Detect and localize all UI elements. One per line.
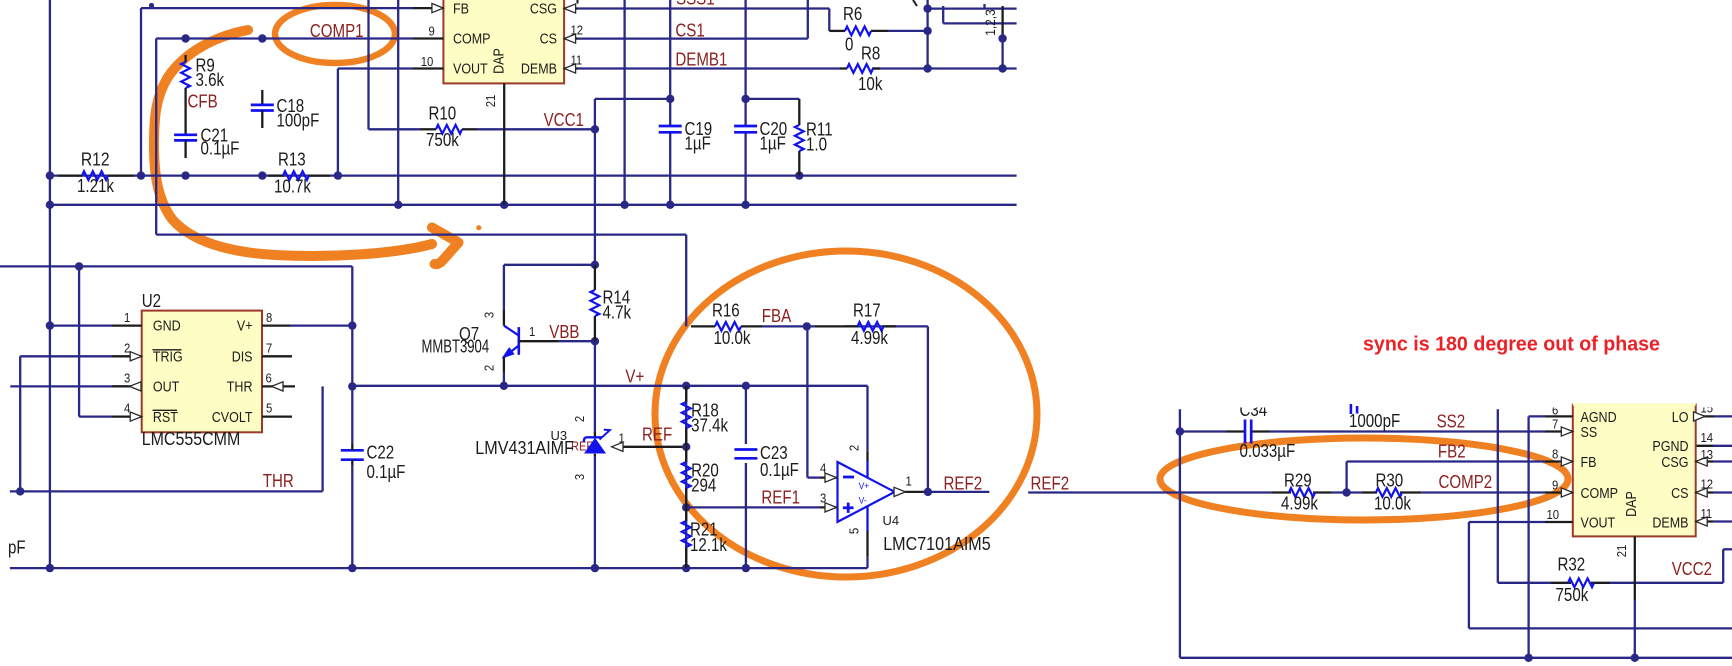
shunt reference U3 LMV431AIMF <box>475 416 625 480</box>
wire REF row y=446.8 from U3 to R18/R20 junction <box>622 446 686 448</box>
svg-text:pF: pF <box>8 537 26 557</box>
transistor Q7 MMBT3904 <box>422 310 559 386</box>
svg-text:13: 13 <box>1701 447 1714 462</box>
junction FB/R12 row A x=141 <box>137 171 145 179</box>
wire FB2 row y=461.5 from R29R30 junction to pin 8 <box>1347 462 1545 493</box>
junction DAP21 row B <box>500 201 508 209</box>
pin arrow U5 DEMB <box>1696 517 1708 526</box>
svg-text:294: 294 <box>691 476 716 496</box>
svg-text:5: 5 <box>847 528 862 534</box>
junction stub dot top left <box>149 3 154 8</box>
resistor R32 750k <box>1551 555 1610 606</box>
junction op-amp output <box>924 488 932 496</box>
svg-text:750k: 750k <box>1556 585 1590 605</box>
svg-text:10.7k: 10.7k <box>274 176 312 196</box>
pin numbers U5 <box>1547 400 1714 522</box>
junction rail left <box>46 564 54 572</box>
cut net label SSS1 at top <box>676 0 715 9</box>
wire VCC1 vertical x=595 from y=99 to R14 top y=265 <box>594 99 596 265</box>
wire corner x=943 y=23 to x=1016 <box>943 6 1016 23</box>
wire rail y=99 C20 to R11 <box>746 98 800 100</box>
pin numbers U1 <box>421 22 583 69</box>
net label REF2 b <box>1031 474 1070 494</box>
svg-text:LMC555CMM: LMC555CMM <box>142 429 241 449</box>
svg-text:R6: R6 <box>843 4 862 24</box>
junction row B left <box>46 201 54 209</box>
cut label fragment near x=915 <box>913 0 917 6</box>
svg-text:750k: 750k <box>426 130 460 150</box>
IC U5 right controller box cut at top <box>1573 405 1696 537</box>
svg-text:SS2: SS2 <box>1437 412 1466 432</box>
svg-text:1µF: 1µF <box>685 134 711 154</box>
resistor R6 0 <box>829 4 888 55</box>
resistor R13 10.7k <box>268 150 330 197</box>
svg-text:3: 3 <box>572 474 587 480</box>
wire Q7 collector link y=264.8 <box>504 265 595 310</box>
junction TRIG THR loop <box>16 487 24 495</box>
svg-text:10: 10 <box>1547 507 1560 522</box>
junction C22 top <box>348 382 356 390</box>
junction C18 top <box>258 34 266 42</box>
capacitor C18 100pF <box>251 90 319 131</box>
svg-text:DIS: DIS <box>232 349 253 365</box>
net label V+ <box>625 367 644 387</box>
svg-text:R13: R13 <box>278 150 306 170</box>
wire RST loop x=79 from top rail down to pin 4 <box>79 266 112 416</box>
capacitor C20 1uF <box>734 119 787 154</box>
wire C34 SS2 row y=431.5 <box>1180 430 1545 432</box>
wire vertical x=625 from top to ground row B <box>623 0 625 205</box>
wire right IC pin15 LO <box>1714 415 1732 417</box>
wire VBB base link y=341.2 <box>558 340 595 342</box>
annotation circle around R16 R17 R18 R20 C23 U4 network <box>655 251 1037 577</box>
svg-text:0.1µF: 0.1µF <box>367 462 406 482</box>
capacitor C22 0.1uF <box>341 443 406 482</box>
junction R18 top <box>682 382 690 390</box>
junction R11 bottom row A <box>795 171 803 179</box>
wire REF1 row y=507.4 to op-amp pin 3 <box>686 506 836 508</box>
svg-text:CS: CS <box>540 31 558 47</box>
resistor R10 750k <box>420 104 477 150</box>
wire U2 top rail y=266.4 from left edge to C22 corner <box>0 266 352 386</box>
junction R9 top <box>181 34 189 42</box>
svg-text:4.99k: 4.99k <box>1281 494 1319 514</box>
junction REF R20 <box>682 443 690 451</box>
wire V+ pin8 row y=325.6 to C22 vertical <box>290 324 352 326</box>
svg-text:CS: CS <box>1671 486 1689 502</box>
svg-text:THR: THR <box>227 380 253 396</box>
svg-text:1: 1 <box>529 324 535 339</box>
svg-text:DAP: DAP <box>492 48 508 74</box>
wire DEMB1 net y=68.5 from pin 11 to R8 <box>578 67 840 69</box>
svg-text:FB2: FB2 <box>1438 442 1466 462</box>
svg-text:V+: V+ <box>859 481 870 492</box>
junction row A left <box>46 171 54 179</box>
resistor R16 10.0k <box>691 301 762 348</box>
svg-text:R10: R10 <box>429 104 457 124</box>
junction R29 R30 <box>1342 488 1350 496</box>
wire vertical x=368 from top to R10 <box>367 0 369 129</box>
junction pins123 mid <box>998 34 1006 42</box>
svg-text:VCC1: VCC1 <box>544 110 584 130</box>
svg-text:DEMB: DEMB <box>521 61 557 77</box>
wire R18 R20 R21 column x=686 <box>685 386 687 568</box>
annotation ellipse around R29 R30 COMP2 <box>1160 438 1568 520</box>
junction R9 bottom <box>181 171 189 179</box>
svg-text:U2: U2 <box>142 291 161 311</box>
svg-text:OUT: OUT <box>153 380 179 396</box>
wire R14 bottom to U3 vertical x=595 <box>594 341 596 568</box>
svg-text:3: 3 <box>482 312 497 318</box>
svg-text:REF: REF <box>642 425 672 445</box>
svg-text:10.0k: 10.0k <box>714 328 752 348</box>
svg-text:sync is 180 degree out of phas: sync is 180 degree out of phase <box>1363 333 1660 356</box>
svg-text:9: 9 <box>1552 477 1558 492</box>
resistor R30 10.0k <box>1362 471 1422 514</box>
svg-text:RST: RST <box>153 410 178 426</box>
svg-text:R30: R30 <box>1376 471 1404 491</box>
svg-text:V-: V- <box>859 496 867 507</box>
svg-text:COMP: COMP <box>453 31 491 47</box>
svg-text:AGND: AGND <box>1581 410 1617 426</box>
wire ground row B y=204.8 long rail <box>50 204 1017 206</box>
svg-text:1,2,3: 1,2,3 <box>982 9 998 36</box>
svg-text:1µF: 1µF <box>760 134 786 154</box>
svg-text:R29: R29 <box>1284 471 1312 491</box>
junction rail DAP2 <box>1631 654 1639 662</box>
junction GND pin1 <box>46 321 54 329</box>
svg-text:LMC7101AIM5: LMC7101AIM5 <box>883 534 991 554</box>
svg-text:11: 11 <box>571 52 583 67</box>
net label SS2 <box>1437 412 1466 432</box>
svg-text:DEMB: DEMB <box>1652 515 1688 531</box>
wire TRIG loop x=20 from pin 2 down to THR row <box>20 356 112 491</box>
wire R32 left vertical x=1498 <box>1498 409 1551 583</box>
svg-text:1: 1 <box>124 310 130 325</box>
net label VCC1 <box>544 110 584 130</box>
pin arrow U4 minus input <box>825 473 837 482</box>
svg-text:FB: FB <box>1581 455 1597 471</box>
svg-text:SS: SS <box>1581 425 1598 441</box>
net label REF <box>642 425 672 445</box>
wire C22 vertical x=352.3 down to bottom rail <box>351 386 353 568</box>
pin numbers U2 <box>124 310 272 416</box>
wire pins 1,2,3 stub black x=1003 <box>1001 6 1003 69</box>
wire VOUT2 loop from pin10 under IC to right edge <box>1469 522 1732 628</box>
pin arrow U1 CSG <box>564 4 576 13</box>
svg-text:10.0k: 10.0k <box>1374 494 1412 514</box>
svg-text:DEMB1: DEMB1 <box>675 50 727 70</box>
junction VBB <box>591 337 599 345</box>
svg-text:LMV431AIMF: LMV431AIMF <box>475 438 574 458</box>
junction net y8 <box>923 4 931 12</box>
svg-text:VBB: VBB <box>549 322 579 342</box>
wire right IC pin11 DEMB <box>1713 520 1732 522</box>
resistor R21 12.1k <box>682 507 728 568</box>
pin arrow U1 DEMB <box>564 64 576 73</box>
wire row A y=175.6 FB/R12/R13 long rail <box>50 174 1017 176</box>
wire R6 output y=31 to x=928 <box>888 30 928 32</box>
svg-text:R8: R8 <box>861 43 880 63</box>
junction rail C22 <box>348 564 356 572</box>
svg-text:3.6k: 3.6k <box>196 70 225 90</box>
wire GND pin1 row y=325.6 <box>50 324 112 326</box>
wire vertical x=928 from top to DEMB1 row <box>926 0 928 69</box>
svg-text:CVOLT: CVOLT <box>212 410 253 426</box>
svg-text:CS1: CS1 <box>675 21 704 41</box>
junction rail U3 <box>591 564 599 572</box>
junction VCC1 x=595 <box>591 125 599 133</box>
wire C23 column x=746 from V+ bus to bottom rail <box>745 386 747 568</box>
resistor R20 294 <box>682 447 719 508</box>
wire op-amp output to REF2 label end <box>905 491 989 493</box>
capacitor C21 0.1uF <box>174 100 239 159</box>
svg-text:7: 7 <box>1552 416 1558 431</box>
junction C20 row B <box>741 201 749 209</box>
junction C19 row B <box>666 201 674 209</box>
junction R6 end <box>923 27 931 35</box>
svg-text:4.7k: 4.7k <box>603 303 632 323</box>
junction rail C23 <box>742 564 750 572</box>
svg-text:21: 21 <box>483 95 498 108</box>
junction VOUT down row A <box>334 171 342 179</box>
net label FBA <box>762 306 792 326</box>
wire vertical x=398 from top to ground row B <box>397 0 399 205</box>
svg-text:VOUT: VOUT <box>453 61 488 77</box>
junction C18 bottom <box>258 171 266 179</box>
svg-text:COMP2: COMP2 <box>1439 472 1493 492</box>
junction DEMB1 x=928 <box>923 64 931 72</box>
wire R17 output corner x=928 down to op-amp output <box>844 326 928 492</box>
svg-text:21: 21 <box>1614 545 1629 558</box>
svg-text:VOUT: VOUT <box>1581 515 1616 531</box>
cut pin fragment above CSG <box>577 0 579 4</box>
pin stubs U5 right <box>1696 416 1714 521</box>
svg-text:CFB: CFB <box>188 92 218 112</box>
wire REF2 net segment to right circuit <box>1028 491 1271 493</box>
svg-text:10k: 10k <box>858 74 883 94</box>
capacitor C19 1uF <box>659 119 713 154</box>
svg-text:3: 3 <box>124 370 130 385</box>
svg-text:DAP: DAP <box>1624 491 1640 517</box>
svg-text:10: 10 <box>421 54 434 69</box>
svg-text:VCC2: VCC2 <box>1672 559 1712 579</box>
resistor R9 3.6k <box>181 55 225 100</box>
wire op-amp pin2 stub black <box>866 452 868 477</box>
svg-text:MMBT3904: MMBT3904 <box>422 337 490 357</box>
svg-text:COMP1: COMP1 <box>310 21 364 41</box>
wire right IC pin13 CSG <box>1713 460 1732 462</box>
svg-text:TRIG: TRIG <box>153 349 183 365</box>
wire FB net top rail y=8 with corner at x=141 <box>141 8 413 176</box>
svg-text:R12: R12 <box>81 150 110 170</box>
pin arrow U4 plus input <box>825 503 837 512</box>
wire bottom ground rail y=568.1 <box>10 567 868 569</box>
wire right IC pin12 CS <box>1713 491 1732 493</box>
net label FB2 <box>1438 442 1466 462</box>
pin arrow U2 THR <box>272 382 284 391</box>
resistor R8 10k <box>840 43 883 94</box>
svg-text:SSS1: SSS1 <box>676 0 715 9</box>
resistor R12 1.21k <box>58 150 134 196</box>
net label CS1 <box>675 21 704 41</box>
pin arrow U5 CS <box>1696 488 1708 497</box>
wire FBA junction down to op-amp pin 4 <box>807 326 836 477</box>
svg-text:12: 12 <box>571 22 584 37</box>
junction rail AGND <box>1524 654 1532 662</box>
svg-text:6: 6 <box>266 370 272 385</box>
pin arrow U4 output <box>894 487 906 496</box>
svg-text:REF2: REF2 <box>944 473 983 493</box>
svg-text:11: 11 <box>1701 506 1713 521</box>
svg-text:FB: FB <box>453 1 469 17</box>
svg-text:THR: THR <box>263 471 294 491</box>
junction rail R21 <box>682 564 690 572</box>
wire VOUT pin10 net y=68 corner down at x=338 <box>338 69 413 176</box>
junction x=398 row B <box>394 201 402 209</box>
op-amp U4 LMC7101AIM5 <box>820 445 991 554</box>
junction C19 top <box>666 95 674 103</box>
pin stubs U2 <box>112 326 295 417</box>
net label COMP1 <box>310 21 364 41</box>
net label COMP2 <box>1439 472 1493 492</box>
pin arrow U3 REF <box>612 442 624 451</box>
wire right circuit left vertical x=1180 <box>1179 409 1181 658</box>
svg-text:COMP: COMP <box>1581 486 1619 502</box>
svg-text:4: 4 <box>124 401 130 416</box>
svg-text:U4: U4 <box>883 513 900 528</box>
svg-text:PGND: PGND <box>1652 439 1688 455</box>
net label DEMB1 <box>675 50 727 70</box>
wire AGND pin6 corner x=1528.6 <box>1529 416 1545 657</box>
pin arrow U5 CSG <box>1696 457 1708 466</box>
junction x=625 row B <box>620 201 628 209</box>
svg-text:REF1: REF1 <box>761 487 800 507</box>
rotated label 1,2,3 <box>982 9 998 36</box>
svg-text:CSG: CSG <box>1661 455 1688 471</box>
junction top rail RST <box>75 262 83 270</box>
junction C34 left <box>1176 427 1184 435</box>
wire R32 output to VCC2 corner <box>1610 549 1732 583</box>
net label CFB <box>188 92 218 112</box>
svg-text:9: 9 <box>429 23 435 38</box>
svg-text:4.99k: 4.99k <box>851 328 889 348</box>
svg-text:R32: R32 <box>1558 555 1586 575</box>
junction C20 top <box>741 95 749 103</box>
pin stubs U1 <box>413 8 578 68</box>
svg-text:2: 2 <box>124 340 130 355</box>
svg-text:0.033µF: 0.033µF <box>1240 441 1296 461</box>
svg-text:1000pF: 1000pF <box>1349 411 1400 431</box>
junction R14 top <box>591 261 599 269</box>
pin arrow U5 SS <box>1561 427 1573 436</box>
svg-text:0.1µF: 0.1µF <box>760 460 799 480</box>
svg-text:1.0: 1.0 <box>806 135 827 155</box>
svg-text:C22: C22 <box>367 443 395 463</box>
junction REF1 R21 <box>682 503 690 511</box>
capacitor C34 0.033uF <box>1240 400 1296 461</box>
pin arrow U5 LO <box>1694 412 1706 421</box>
junction V+ pin8 <box>348 321 356 329</box>
svg-text:14: 14 <box>1701 430 1714 445</box>
net label REF2 a <box>944 473 983 493</box>
svg-text:1: 1 <box>906 474 912 489</box>
svg-text:2: 2 <box>847 445 862 451</box>
svg-text:R16: R16 <box>712 301 740 321</box>
wire COMP1 loop left vertical x=156 down to y=234 <box>155 39 157 235</box>
wire THR pin6 corner x=322.6 <box>321 386 323 491</box>
svg-text:8: 8 <box>266 310 272 325</box>
capacitor C23 0.1uF <box>734 443 799 480</box>
junction pins123 bottom <box>998 64 1006 72</box>
pin arrow U1 CS <box>564 34 576 43</box>
wire R8 output y=68.5 to right end x=1016 <box>872 67 1017 69</box>
svg-text:V+: V+ <box>237 319 253 335</box>
wire op-amp pin5 stub to bottom rail corner <box>866 507 868 568</box>
net label THR <box>263 471 294 491</box>
pin stubs U5 left <box>1545 416 1573 522</box>
IC U2 LMC555CMM box <box>142 291 262 449</box>
wire COMP1 net y=38 from x=156 to pin 9 <box>156 37 413 39</box>
annotation curved arrow from COMP1 toward feedback network <box>154 30 481 264</box>
pin arrow U1 FB <box>432 4 444 13</box>
wire VCC1 row y=129 from R10 corner to x=595 <box>369 128 595 130</box>
svg-text:100pF: 100pF <box>277 111 320 131</box>
svg-text:0: 0 <box>845 35 853 55</box>
IC U1 top controller box cut at top <box>443 0 564 83</box>
svg-text:LO: LO <box>1672 410 1689 426</box>
wire right IC pin14 PGND <box>1696 445 1732 447</box>
pin arrow U2 TRIG <box>130 352 142 361</box>
svg-text:2: 2 <box>482 365 497 371</box>
resistor R14 4.7k <box>591 265 632 341</box>
svg-text:V+: V+ <box>625 367 644 387</box>
capacitor 1000pF cut fragment <box>1349 404 1400 431</box>
pin arrow U2 RST <box>130 412 142 421</box>
wire CS1 net y=38.6 from pin 12 to corner up at x=808 <box>578 0 808 39</box>
junction Q7 emitter V+ <box>500 382 508 390</box>
resistor R29 4.99k <box>1271 471 1331 514</box>
svg-text:FBA: FBA <box>762 306 792 326</box>
wire right bottom ground rail y=657.8 <box>1180 657 1732 659</box>
svg-text:8: 8 <box>1552 446 1558 461</box>
wire net y=8 from x=928 to x=1016 <box>928 4 1017 9</box>
wire THR loop bottom y=491.4 <box>10 490 323 492</box>
svg-text:GND: GND <box>153 319 181 335</box>
net label VBB <box>549 322 579 342</box>
wire row C y=234 COMP1 to R16 with corner down at x=686 <box>156 235 686 327</box>
wire C20 vertical x=746 from top to ground row B <box>744 0 746 205</box>
junction C23 top <box>742 382 750 390</box>
wire CSG net y=8.5 from pin 13 to R6 corner x=829 <box>578 9 829 31</box>
svg-text:1.21k: 1.21k <box>77 176 115 196</box>
wire COMP2 row R29 R30 to pin 9 <box>1332 491 1545 493</box>
net label VCC2 <box>1672 559 1712 579</box>
pin arrow U5 COMP <box>1561 488 1573 497</box>
pin arrow U5 FB <box>1561 457 1573 466</box>
wire FBA row y=326.4 R16 to R17 <box>762 325 815 327</box>
partial label pF bottom left <box>8 537 26 557</box>
pin arrow U2 OUT <box>130 382 142 391</box>
wire OUT pin3 row y=386.4 <box>10 385 130 387</box>
net label REF1 <box>761 487 800 507</box>
wire C19 vertical x=670 from top to ground row B <box>669 0 671 205</box>
svg-text:CSG: CSG <box>530 1 557 17</box>
wire V+ bus y=385.8 from C22 to op-amp pin2 corner <box>352 386 867 452</box>
svg-text:2: 2 <box>572 416 587 422</box>
svg-text:7: 7 <box>266 340 272 355</box>
annotation text sync is 180 degree out of phase <box>1363 333 1660 356</box>
